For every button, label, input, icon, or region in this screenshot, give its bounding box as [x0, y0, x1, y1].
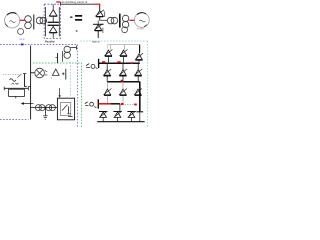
label top [61, 1, 88, 4]
thyristor leg A1 [104, 45, 139, 63]
wire [139, 112, 141, 122]
label [92, 41, 100, 44]
wire into box [44, 19, 46, 21]
current arrow branch [62, 69, 66, 80]
diode row4 c [127, 111, 135, 121]
resistor dotted [3, 74, 22, 81]
diode row3 c [134, 89, 142, 96]
boundary green dashed vertical [81, 63, 83, 127]
red node [130, 62, 133, 64]
meter V1 [31, 68, 48, 78]
node marker blue [21, 44, 24, 46]
red node [121, 80, 124, 82]
red node [102, 61, 105, 63]
bus2 end tick [136, 111, 143, 113]
svg-text:Rectifier: Rectifier [45, 40, 55, 43]
thyristor Q1 [95, 7, 104, 20]
dc cap symbol [70, 15, 82, 21]
marks [12, 83, 19, 84]
svg-text:uv w: uv w [20, 38, 25, 41]
diode D1 [49, 4, 57, 16]
gray dashed wire [125, 104, 134, 106]
boundary teal dashed horizontal [80, 40, 148, 42]
machine M1 [5, 13, 20, 28]
converter box dashed [44, 4, 60, 38]
dc wire top [60, 2, 94, 4]
red node [117, 61, 120, 63]
diode row3 b [119, 82, 127, 104]
bus2 [107, 82, 140, 112]
diode row4 b [113, 111, 121, 121]
diode D2 [49, 26, 57, 37]
arrow annotation [21, 102, 34, 105]
transformer T1 [25, 15, 47, 30]
thyristor leg B1 [120, 49, 128, 62]
capacitor mid [55, 53, 57, 63]
dc bus bottom [98, 99, 120, 111]
thyristor Q2 [93, 20, 104, 38]
boundary blue dashed vertical [76, 44, 78, 127]
boundary green dashed horizontal [33, 62, 82, 64]
left rail [30, 46, 32, 120]
transformer T3 [63, 46, 77, 62]
winding aux left [18, 29, 24, 35]
wire red [129, 19, 134, 21]
thyristor leg C1 [135, 53, 143, 62]
meter glyph mid [86, 64, 98, 69]
wire red top right [94, 4, 100, 7]
transformer T2 [107, 14, 129, 28]
machine M2 [134, 13, 149, 28]
svg-text:m otor: m otor [137, 27, 144, 30]
diode row2 b [119, 63, 127, 81]
wire red [20, 19, 25, 21]
winding aux right [122, 27, 128, 33]
diode row2 c [134, 63, 142, 81]
box inner rail left [45, 7, 47, 36]
diode row2 a [103, 63, 111, 81]
RLC branch box [4, 87, 28, 99]
capacitor C1 [48, 16, 59, 25]
filter chain [31, 105, 58, 111]
label [137, 27, 144, 30]
wire [100, 19, 108, 21]
diode row3 a [103, 82, 111, 104]
boundary blue dashed horizontal [0, 43, 77, 45]
red node [134, 104, 137, 106]
bus1 [99, 59, 140, 68]
control box [57, 88, 74, 120]
label blue [20, 38, 25, 41]
gray wire vertical [70, 62, 72, 96]
svg-text:ud smoothing reactor Id: ud smoothing reactor Id [61, 1, 88, 4]
bridge1 feed gray [108, 45, 140, 50]
box inner rail right [58, 7, 60, 36]
delta symbol [52, 69, 59, 75]
boundary blue dashed bottom-left [0, 119, 29, 121]
wire red top left [56, 1, 60, 3]
red node [121, 103, 124, 105]
boundary teal dashed vertical [147, 41, 149, 127]
label under box [45, 40, 55, 43]
ground [43, 109, 48, 120]
wire with tick [23, 74, 31, 87]
label [51, 78, 53, 80]
scope glyph [85, 102, 97, 108]
diode row4 a [99, 111, 107, 121]
bottom bus [97, 121, 144, 123]
junction dot [76, 30, 78, 32]
